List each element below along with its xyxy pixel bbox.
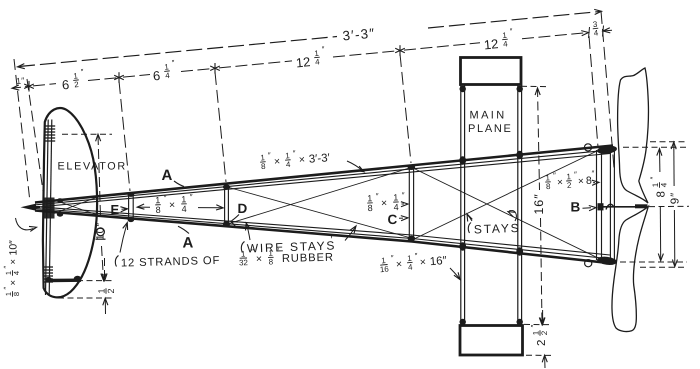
svg-text:″: ″: [530, 325, 539, 328]
label 12 strands: [121, 245, 334, 271]
extension line at prop shaft: [601, 11, 614, 168]
svg-text:×: ×: [395, 258, 402, 270]
label 1/8x1/4x10 vertical: [2, 240, 21, 297]
elevator spar bottom lashing: [43, 266, 54, 268]
propeller hub bar: [635, 204, 648, 208]
propeller bottom blade: [612, 207, 648, 332]
leader C arrow: [399, 217, 403, 219]
svg-text:1: 1: [181, 194, 186, 204]
svg-text:12: 12: [295, 54, 311, 70]
leader 1/16x1/4x16: [450, 268, 460, 279]
svg-text:6: 6: [61, 77, 70, 93]
dim 10in top arrow: [96, 134, 101, 141]
svg-text:1: 1: [651, 182, 660, 187]
svg-text:RUBBER: RUBBER: [282, 252, 334, 265]
dim chain left arrow: [12, 85, 19, 90]
svg-text:2: 2: [540, 330, 549, 335]
dim chain seg f: [333, 51, 400, 57]
svg-text:8: 8: [12, 292, 21, 296]
svg-text:1: 1: [367, 193, 372, 203]
svg-text:E: E: [111, 202, 120, 217]
dim 3/4 right tail: [603, 29, 612, 32]
strut C: [408, 166, 410, 240]
dim 16in line: [538, 88, 540, 190]
strut B bottom lashing: [597, 256, 618, 266]
label 2.5in: [530, 325, 550, 347]
main plane top cap: [461, 58, 522, 85]
stay anchor circle top: [584, 144, 591, 151]
svg-text:″: ″: [376, 192, 379, 201]
dim 3-3 line left part: [19, 37, 337, 67]
dim chain seg c: [123, 75, 150, 78]
label 12 1/4 right: [482, 27, 514, 53]
label STAYS: [473, 216, 520, 236]
svg-text:8: 8: [269, 257, 274, 266]
svg-text:3′-3′: 3′-3′: [308, 152, 330, 166]
svg-text:″: ″: [190, 193, 193, 202]
extension line at hook: [14, 59, 30, 202]
svg-text:PLANE: PLANE: [468, 123, 513, 135]
dim 8.25 line: [659, 149, 661, 172]
main plane longeron lashings: [459, 156, 466, 164]
svg-text:×: ×: [578, 176, 585, 187]
dim 9 line: [673, 143, 675, 187]
svg-text:1: 1: [155, 195, 160, 205]
svg-text:C: C: [388, 212, 398, 227]
stays leader left: [468, 215, 473, 221]
ext prop bottom2: [640, 266, 687, 268]
dim chain seg g: [404, 43, 480, 50]
leader E arrow: [122, 208, 127, 210]
svg-text:10″: 10″: [8, 240, 20, 256]
leader 1/8x1/4x10: [16, 218, 34, 230]
svg-text:3′-3″: 3′-3″: [342, 26, 376, 44]
dim 3-3 right arrow: [594, 9, 601, 14]
wire stays curl: [241, 242, 244, 253]
main plane right spar: [517, 86, 519, 327]
rubber strand upper: [38, 154, 610, 208]
label 8.25: [649, 177, 669, 198]
rubber strand lower: [38, 207, 610, 255]
propeller bearing post: [609, 150, 611, 262]
dim chain seg h: [522, 33, 587, 39]
label 1/8x1/2x8 at B: [545, 169, 596, 191]
label 1/8x1/4 at C: [367, 191, 405, 213]
label 6 1/4: [151, 58, 176, 83]
dim half-in arrows: [104, 258, 106, 280]
extension line at C: [400, 54, 411, 163]
strut D lashings: [223, 184, 230, 189]
svg-text:′: ′: [516, 216, 518, 228]
stay anchor circle bottom: [585, 260, 592, 267]
hook symbol below bottom longeron: [97, 228, 105, 236]
main plane left spar: [460, 86, 462, 327]
svg-text:ELEVATOR: ELEVATOR: [58, 161, 127, 173]
svg-text:×: ×: [8, 280, 19, 286]
svg-text:×: ×: [256, 253, 262, 265]
svg-text:STAYS: STAYS: [474, 221, 521, 237]
leader 1/8x1/4 C arrow: [402, 203, 405, 205]
svg-text:1: 1: [393, 192, 398, 202]
nose lashing: [43, 198, 55, 219]
wire stay D-C: [229, 188, 411, 239]
extension line at nose frame: [27, 79, 45, 205]
svg-text:8: 8: [155, 205, 160, 215]
ext main plane top: [521, 85, 549, 87]
label 1in: [16, 75, 25, 86]
dim 3/4 left arrow: [581, 31, 588, 36]
label 10in: [95, 222, 107, 240]
svg-text:D: D: [238, 201, 248, 216]
svg-text:″: ″: [251, 247, 254, 256]
stays leader right: [509, 210, 516, 221]
dim 9 arrows: [671, 142, 676, 149]
main plane cap lashings: [460, 86, 466, 92]
extension line at E: [119, 81, 130, 191]
svg-text:16″: 16″: [532, 193, 546, 214]
extension line at B: [589, 36, 598, 147]
dim chain seg b: [88, 78, 119, 81]
main plane bottom cap: [460, 326, 523, 356]
leader 1/8x1/2 arrow: [593, 182, 595, 184]
leader B arrow: [583, 207, 592, 210]
strands leader: [120, 224, 127, 253]
label 6 1/2: [60, 67, 85, 92]
svg-text:×: ×: [381, 197, 388, 209]
propeller shaft: [602, 206, 637, 208]
tick C: [399, 45, 401, 56]
strut B top lashing: [597, 145, 618, 155]
dim strut ED arrows: [137, 204, 144, 209]
tick at hook: [28, 81, 30, 92]
svg-text:4: 4: [660, 182, 669, 187]
shaft hook: [606, 204, 614, 209]
dim strut ED line: [137, 206, 150, 208]
elevator spar left line: [46, 120, 49, 296]
dim 2.5 arrows: [542, 310, 544, 324]
tick D: [214, 63, 216, 74]
centerline ext at hub: [630, 205, 689, 208]
svg-text:×: ×: [8, 259, 19, 265]
svg-text:″: ″: [276, 247, 279, 256]
svg-text:A: A: [183, 235, 194, 252]
dim 8.25 arrows: [657, 149, 662, 156]
svg-text:4: 4: [181, 204, 186, 214]
propeller top blade: [618, 68, 649, 203]
wire stay C-B: [414, 169, 597, 258]
wire stays leader right: [345, 227, 356, 241]
svg-text:A: A: [162, 167, 173, 184]
label 3/4: [592, 20, 599, 38]
label 12 1/4 left: [294, 45, 326, 71]
elevator spar right line: [49, 120, 52, 296]
svg-text:×: ×: [298, 154, 305, 166]
svg-text:B: B: [571, 200, 581, 215]
ext prop bottom: [620, 261, 687, 263]
shaft bearing at B: [598, 203, 604, 210]
svg-text:″: ″: [2, 266, 11, 269]
svg-text:×: ×: [169, 199, 176, 211]
dim chain seg a: [33, 84, 56, 86]
svg-text:2: 2: [536, 340, 548, 346]
dim chain seg d: [181, 68, 215, 71]
ext elevator bottom: [58, 280, 112, 282]
leader A upper: [174, 181, 184, 187]
svg-text:1: 1: [531, 330, 540, 335]
strut B: [596, 150, 598, 260]
label half-in: [96, 288, 116, 294]
svg-text:MAIN: MAIN: [470, 110, 507, 122]
svg-text:×: ×: [557, 177, 564, 188]
svg-text:″: ″: [402, 191, 405, 200]
ext elevator tip: [58, 297, 112, 299]
label WIRE STAYS: [246, 234, 336, 256]
svg-text:32: 32: [239, 258, 249, 267]
svg-text:8: 8: [367, 203, 372, 213]
ext elevator top: [62, 133, 112, 135]
svg-text:16″: 16″: [429, 255, 447, 268]
svg-text:″: ″: [649, 177, 658, 180]
label 16in: [532, 193, 546, 214]
tick B: [589, 27, 590, 38]
svg-text:12: 12: [483, 36, 499, 52]
elevator bottom cross bar: [51, 279, 82, 283]
elevator outline: [43, 108, 97, 297]
bottom longeron inner line: [36, 209, 612, 260]
label 3'-3: [342, 26, 376, 44]
dim chain seg 1in: [13, 86, 29, 88]
dim 10in line: [98, 135, 101, 217]
svg-text:2: 2: [106, 288, 116, 293]
svg-text:″: ″: [164, 193, 167, 202]
leader A lower: [178, 226, 189, 233]
strut D: [224, 186, 226, 226]
strands curl: [115, 256, 118, 267]
top longeron inner line: [36, 150, 612, 205]
svg-text:9″: 9″: [670, 192, 682, 204]
dim 10in bottom arrow: [101, 274, 106, 281]
top longeron outer: [35, 146, 613, 203]
svg-text:4: 4: [393, 202, 398, 212]
svg-text:8: 8: [656, 191, 668, 197]
svg-text:×: ×: [419, 256, 426, 268]
label 1/8x1/4x3-3: [259, 146, 330, 171]
extension line at D: [215, 72, 226, 182]
svg-text:×: ×: [273, 156, 280, 168]
svg-text:4: 4: [12, 271, 21, 275]
stays curl left: [468, 223, 471, 234]
dim 3-3 line right part: [428, 12, 600, 29]
tick E: [118, 72, 120, 83]
dim chain seg e: [219, 61, 292, 68]
ext prop top2: [650, 141, 687, 143]
leader 1/8x1/4x3-3: [347, 161, 363, 171]
bottom longeron outer: [35, 211, 613, 264]
label 1/8x1/4 at E: [155, 193, 193, 215]
svg-text:″: ″: [2, 287, 11, 290]
svg-text:1: 1: [96, 288, 106, 293]
leader D: [232, 215, 240, 221]
ext main plane bottom: [524, 323, 551, 325]
ext prop top: [623, 146, 687, 148]
label 9in: [670, 192, 682, 204]
svg-text:6: 6: [152, 68, 161, 84]
rear hook at nose: [21, 204, 37, 211]
elevator spar top lashing: [45, 125, 55, 127]
strut E: [128, 194, 130, 221]
dim 3/4 right arrow: [603, 28, 610, 33]
nose wire stay X: [54, 200, 96, 215]
svg-text:16: 16: [379, 264, 389, 274]
dim 3-3 left arrow: [18, 64, 25, 69]
wire stays leader left: [247, 224, 251, 240]
ext bottom cap: [526, 354, 552, 356]
label 1/16x1/4x16: [379, 249, 448, 274]
dim 16in arrows: [535, 88, 540, 95]
strut E lashings: [127, 192, 134, 197]
svg-text:′: ′: [330, 234, 332, 246]
svg-text:10″: 10″: [95, 222, 107, 240]
tick prop: [603, 26, 604, 37]
strut C lashings: [408, 165, 416, 170]
